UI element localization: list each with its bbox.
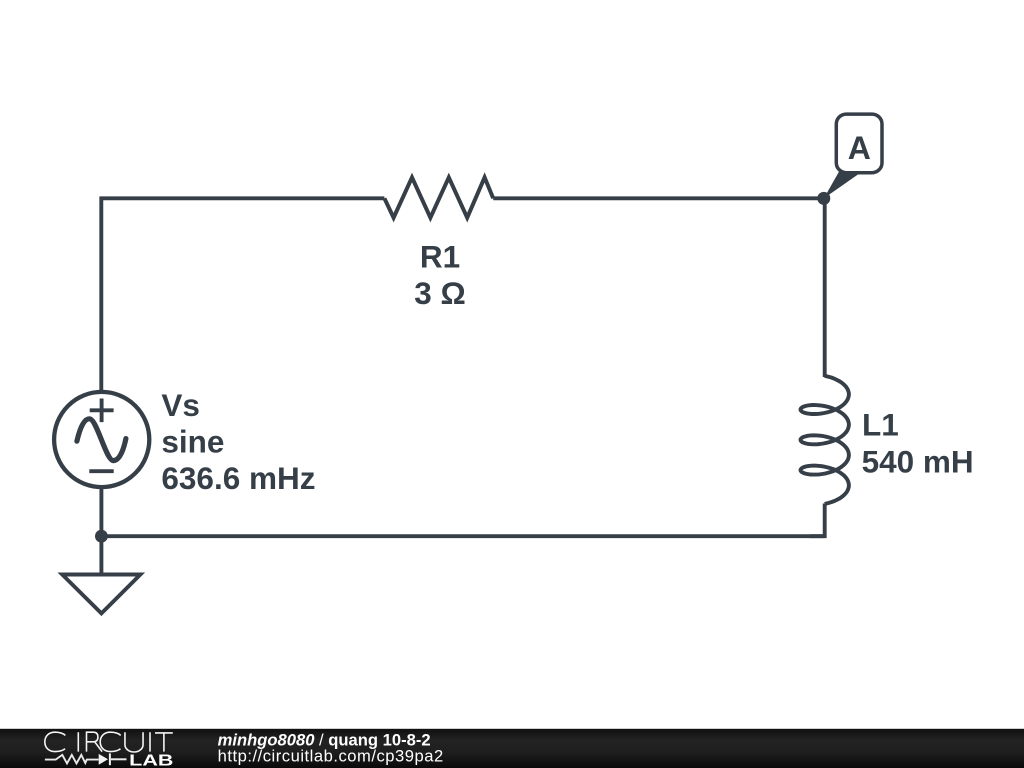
svg-text:L1: L1 <box>862 406 899 442</box>
svg-text:3 Ω: 3 Ω <box>414 275 466 311</box>
svg-text:Vs: Vs <box>161 387 200 423</box>
svg-text:636.6 mHz: 636.6 mHz <box>161 460 315 496</box>
wire: right vertical lower (inductor to bottom wire corner) <box>810 504 825 537</box>
junction dot (ground node) <box>95 530 108 543</box>
svg-text:sine: sine <box>161 424 224 460</box>
svg-text:R1: R1 <box>420 239 460 275</box>
node A box <box>836 114 882 173</box>
ground symbol <box>62 575 140 614</box>
wire: top horizontal left segment + left vertical corner <box>101 198 384 391</box>
CircuitLab logo resistor glyph <box>45 755 99 764</box>
svg-text:540 mH: 540 mH <box>862 444 974 480</box>
CircuitLab logo diode output wire <box>111 758 127 760</box>
svg-text:http://circuitlab.com/cp39pa2: http://circuitlab.com/cp39pa2 <box>218 747 444 766</box>
voltage source sine wave <box>77 419 126 461</box>
wire: top horizontal right segment <box>493 196 824 200</box>
CircuitLab logo diode triangle <box>99 754 108 765</box>
resistor R1 <box>384 177 493 217</box>
wire: bottom horizontal <box>101 534 824 538</box>
node A pointer wedge <box>824 170 864 198</box>
CircuitLab logo diode cathode bar <box>109 753 111 765</box>
voltage source plus sign <box>90 399 114 423</box>
CircuitLab logo CIRCUIT lettering <box>45 732 173 752</box>
svg-text:A: A <box>848 130 871 166</box>
wire: source bottom to ground <box>99 487 103 574</box>
voltage source Vs circle <box>54 392 149 487</box>
wire: right vertical upper (node A to inductor) <box>823 198 827 377</box>
svg-text:LAB: LAB <box>129 753 173 768</box>
footer bar <box>0 729 1024 768</box>
junction dot node A <box>817 192 830 205</box>
inductor L1 coil <box>801 376 849 504</box>
voltage source minus sign <box>89 469 113 473</box>
